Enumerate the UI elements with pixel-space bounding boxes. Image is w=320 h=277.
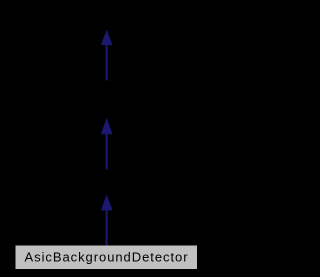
inheritance arrow 2 (middle) (101, 118, 113, 170)
node box AsicBackgroundDetector (16, 246, 198, 270)
inheritance arrow 3 (bottom) (101, 194, 113, 245)
svg-text:AsicBackgroundDetector: AsicBackgroundDetector (25, 250, 189, 265)
inheritance arrow 1 (top) (101, 30, 113, 81)
